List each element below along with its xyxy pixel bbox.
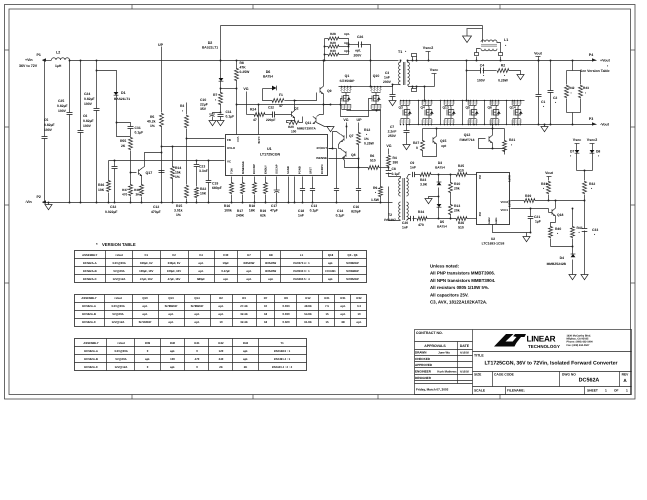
svg-text:opt.: opt. (355, 49, 361, 53)
svg-text:0.1µF: 0.1µF (135, 131, 144, 135)
svg-text:C20: C20 (402, 221, 408, 225)
wire top reset net (221, 25, 483, 27)
svg-text:R26: R26 (458, 221, 464, 225)
svg-text:CHECKED: CHECKED (415, 357, 431, 361)
wire reset to L1 (482, 26, 484, 29)
svg-text:R55: R55 (120, 139, 126, 143)
svg-text:10: 10 (264, 304, 268, 308)
svg-text:0.82µF: 0.82µF (83, 119, 94, 123)
svg-text:C12: C12 (153, 205, 159, 209)
svg-text:DC562A-A: DC562A-A (82, 304, 96, 308)
svg-text:MMBT2907A: MMBT2907A (297, 127, 316, 131)
svg-text:Q12: Q12 (464, 133, 471, 137)
svg-text:10K: 10K (98, 188, 105, 192)
svg-text:VG: VG (243, 87, 248, 91)
svg-text:240: 240 (219, 357, 224, 361)
svg-text:DC562A-C: DC562A-C (84, 365, 98, 369)
svg-text:SGND: SGND (287, 166, 290, 174)
svg-text:1%: 1% (364, 137, 369, 141)
wire R28 bus (325, 38, 329, 40)
svg-text:100: 100 (291, 130, 297, 134)
svg-text:DC562A-A: DC562A-A (83, 261, 97, 265)
svg-text:Si7892DP: Si7892DP (346, 261, 359, 265)
svg-text:R2: R2 (501, 64, 506, 68)
svg-text:R42: R42 (569, 86, 575, 90)
capacitor C17 47uF (276, 177, 278, 191)
svg-text:47µF, 16V: 47µF, 16V (140, 277, 153, 281)
svg-text:15k: 15k (175, 171, 181, 175)
svg-text:47µF, 16V: 47µF, 16V (168, 277, 181, 281)
svg-text:R41: R41 (577, 226, 583, 230)
svg-text:Q8: Q8 (351, 153, 356, 157)
svg-text:U2: U2 (491, 237, 495, 241)
svg-text:Q18: Q18 (557, 213, 564, 217)
wire diode join (577, 170, 593, 172)
svg-text:PA0373 4 : 1: PA0373 4 : 1 (293, 261, 310, 265)
svg-text:BAT54: BAT54 (437, 225, 447, 229)
resistor R24 47 (247, 114, 255, 116)
svg-text:Q6: Q6 (488, 106, 493, 110)
svg-text:C31: C31 (135, 126, 141, 130)
svg-text:Q1: Q1 (345, 74, 350, 78)
svg-text:DRAWN: DRAWN (415, 351, 427, 355)
svg-text:22µF: 22µF (200, 103, 208, 107)
diode D7 (575, 150, 580, 153)
svg-text:Q18: Q18 (328, 253, 334, 257)
svg-text:Fax: (408) 434-0507: Fax: (408) 434-0507 (567, 344, 591, 347)
svg-text:Q15: Q15 (440, 139, 447, 143)
svg-text:opt.: opt. (142, 304, 147, 308)
svg-text:1µH: 1µH (55, 64, 62, 68)
svg-text:C22: C22 (268, 106, 274, 110)
svg-text:R5: R5 (150, 115, 154, 119)
svg-text:PA0465 5 : 4: PA0465 5 : 4 (293, 277, 310, 281)
wire Q17 collector (142, 153, 162, 169)
svg-text:P3: P3 (589, 117, 593, 121)
svg-text:opt.: opt. (223, 277, 228, 281)
version table 1 (75, 251, 367, 283)
svg-text:LT1725CGN: LT1725CGN (260, 153, 281, 157)
svg-text:C23: C23 (199, 165, 205, 169)
svg-text:R21: R21 (324, 296, 330, 300)
svg-text:1%: 1% (176, 213, 181, 217)
svg-text:T1: T1 (280, 341, 284, 345)
svg-text:opt.: opt. (170, 365, 175, 369)
wire C26 drop to drains (370, 86, 372, 88)
svg-text:100V: 100V (58, 109, 67, 113)
svg-text:0: 0 (416, 146, 418, 150)
resistor R14 15k 1% (172, 147, 174, 167)
svg-text:Q10: Q10 (142, 296, 148, 300)
svg-text:L2: L2 (56, 51, 60, 55)
svg-text:2K: 2K (244, 365, 248, 369)
svg-text:100: 100 (170, 357, 175, 361)
svg-text:R23: R23 (420, 178, 426, 182)
svg-text:Vsec2: Vsec2 (587, 138, 597, 142)
transistor Q2 (291, 111, 293, 117)
svg-text:5V@20A: 5V@20A (115, 357, 126, 361)
svg-text:CONTRACT NO.: CONTRACT NO. (416, 331, 443, 335)
resistor R18 18K (254, 177, 256, 183)
svg-text:Si7892DP: Si7892DP (191, 304, 204, 308)
svg-text:VG: VG (386, 144, 391, 148)
resistor R37 470 (130, 173, 132, 185)
capacitor C24 0.82uF 100V (96, 61, 98, 109)
svg-text:opt.: opt. (142, 312, 147, 316)
svg-text:5V@20A: 5V@20A (112, 312, 123, 316)
svg-text:DC562A-B: DC562A-B (84, 357, 98, 361)
svg-text:opt.: opt. (170, 349, 175, 353)
svg-text:R4: R4 (393, 156, 397, 160)
svg-text:CAGE CODE: CAGE CODE (494, 373, 515, 377)
wire VCC pin riser (236, 105, 238, 135)
svg-text:C21: C21 (534, 215, 540, 219)
wire driver cluster (323, 94, 325, 115)
wire sec drain bus (401, 100, 525, 102)
svg-text:DATE: DATE (460, 344, 470, 348)
transistor Q8 (345, 151, 347, 157)
svg-text:1: 1 (626, 389, 628, 393)
svg-text:SFST: SFST (310, 167, 313, 174)
svg-text:All PNP transistors MMBT3906.: All PNP transistors MMBT3906. (430, 271, 495, 276)
svg-text:VCC2: VCC2 (500, 200, 508, 204)
svg-text:510: 510 (370, 159, 376, 163)
svg-text:Q5: Q5 (466, 106, 471, 110)
resistor R4 390 (387, 155, 391, 167)
svg-text:June Wu: June Wu (438, 351, 450, 355)
svg-text:ASSEMBLY: ASSEMBLY (83, 341, 98, 345)
svg-text:VCC: VCC (236, 137, 239, 143)
svg-text:UVLO: UVLO (227, 146, 236, 150)
svg-text:+Vout: +Vout (114, 296, 122, 300)
svg-text:LINEAR: LINEAR (527, 335, 556, 344)
svg-text:R21: R21 (509, 138, 515, 142)
wire GATE pin riser (258, 105, 260, 135)
svg-text:100V: 100V (477, 79, 486, 83)
svg-text:DESIGNER: DESIGNER (415, 376, 432, 380)
svg-text:Q3: Q3 (399, 106, 404, 110)
wire U2 gnd (493, 225, 531, 233)
svg-text:R15: R15 (176, 204, 182, 208)
svg-text:2K: 2K (219, 365, 223, 369)
svg-text:2.2nF: 2.2nF (388, 130, 397, 134)
svg-text:MINENAB: MINENAB (242, 161, 245, 174)
svg-text:D2: D2 (208, 41, 213, 45)
resistor R38 3K (141, 176, 143, 185)
svg-text:UP: UP (357, 118, 363, 122)
svg-text:D7: D7 (570, 150, 574, 154)
svg-text:510: 510 (458, 226, 464, 230)
svg-text:680µF: 680µF (197, 277, 205, 281)
svg-text:DC562A-A: DC562A-A (84, 349, 98, 353)
svg-text:Si7852DP: Si7852DP (346, 277, 359, 281)
svg-text:20k: 20k (454, 187, 460, 191)
svg-text:VERSION TABLE: VERSION TABLE (102, 242, 136, 247)
capacitor C31 0.1uF (117, 123, 131, 127)
inductor L2 1uH (52, 58, 70, 60)
svg-text:0.022µF: 0.022µF (105, 210, 117, 214)
node P1 +Vin input (43, 60, 52, 62)
svg-text:opt.: opt. (340, 304, 345, 308)
svg-text:0.82µF: 0.82µF (84, 97, 95, 101)
svg-text:R39: R39 (145, 341, 151, 345)
svg-text:0.030: 0.030 (283, 312, 290, 316)
svg-text:PA0297: PA0297 (384, 218, 396, 222)
svg-text:C2: C2 (553, 96, 557, 100)
svg-text:330µF, 6V: 330µF, 6V (168, 261, 181, 265)
resistor R32 (583, 181, 587, 194)
resistor R41 (572, 209, 574, 227)
svg-text:32.4K: 32.4K (240, 312, 247, 316)
svg-text:opt.: opt. (168, 312, 173, 316)
svg-text:C18: C18 (298, 209, 304, 213)
svg-text:Q10: Q10 (373, 74, 380, 78)
T1 secondary winding (408, 62, 410, 85)
svg-text:54.9K: 54.9K (304, 312, 311, 316)
wire gates (331, 104, 341, 106)
resistor R22 10K (195, 187, 199, 198)
svg-text:1nF: 1nF (402, 226, 408, 230)
svg-text:FCX491: FCX491 (325, 269, 336, 273)
node P3 -Vout (592, 122, 596, 126)
svg-text:C24: C24 (84, 92, 90, 96)
svg-text:3.3: 3.3 (357, 304, 361, 308)
ground T2 primary (389, 187, 401, 221)
svg-text:opt.: opt. (340, 312, 345, 316)
svg-text:opt.: opt. (344, 49, 350, 53)
svg-text:C16: C16 (353, 205, 359, 209)
capacitor C12 470uF (159, 171, 165, 173)
diode D5 BAT54 (438, 197, 440, 205)
svg-text:R43: R43 (583, 86, 589, 90)
svg-text:0.1µF: 0.1µF (310, 209, 319, 213)
svg-text:opt.: opt. (145, 357, 150, 361)
svg-text:R36: R36 (98, 183, 104, 187)
svg-text:C5: C5 (44, 118, 48, 122)
resistor R3 1% (185, 115, 189, 128)
svg-text:49.9K: 49.9K (304, 304, 311, 308)
svg-text:PA0533 3 : 1: PA0533 3 : 1 (293, 269, 310, 273)
svg-text:FILENAME:: FILENAME: (507, 389, 525, 393)
svg-text:2K: 2K (121, 144, 126, 148)
wire source bus (341, 104, 343, 109)
svg-text:Unless noted:: Unless noted: (430, 264, 460, 269)
svg-text:+Vout: +Vout (115, 253, 123, 257)
svg-text:C30: C30 (223, 253, 229, 257)
op-amp U2 LTC1693-1CS8 (477, 173, 510, 225)
wire gate drive (237, 89, 331, 105)
svg-text:APPROVED: APPROVED (415, 363, 433, 367)
svg-text:opt.: opt. (344, 32, 350, 36)
svg-text:3.3nF: 3.3nF (199, 169, 208, 173)
svg-text:OSCAP: OSCAP (276, 164, 279, 174)
svg-text:47: 47 (279, 104, 283, 108)
svg-text:510: 510 (458, 169, 464, 173)
op-amp U1 LT1725CGN (226, 135, 328, 176)
svg-text:DC562A-B: DC562A-B (83, 269, 97, 273)
svg-text:15: 15 (325, 320, 329, 324)
resistor R55 2K (117, 123, 131, 137)
svg-text:27.4K: 27.4K (240, 304, 247, 308)
svg-text:R7: R7 (213, 93, 217, 97)
Q18 (551, 209, 553, 215)
svg-text:470µF: 470µF (151, 210, 161, 214)
svg-text:Q17: Q17 (146, 171, 153, 175)
svg-text:47µF: 47µF (270, 209, 278, 213)
wire T2 sec bottom (407, 219, 411, 221)
svg-text:opt.: opt. (168, 320, 173, 324)
resistor R25 510 (456, 173, 467, 177)
svg-text:C25: C25 (58, 99, 64, 103)
svg-text:opt.: opt. (246, 269, 251, 273)
ground C21 (530, 232, 532, 234)
svg-text:1nF: 1nF (410, 166, 416, 170)
svg-text:T1: T1 (398, 50, 402, 54)
capacitor C19 680pF (208, 161, 210, 181)
svg-text:ROCMP: ROCMP (253, 164, 256, 174)
resistor R16 100k (231, 177, 233, 183)
svg-text:C11: C11 (226, 110, 232, 114)
svg-text:C14: C14 (337, 209, 343, 213)
svg-text:0.1µF: 0.1µF (336, 214, 345, 218)
svg-text:40.2k: 40.2k (147, 120, 156, 124)
wire SGND PGND (288, 177, 290, 203)
resistor R15 3.01k 1% (185, 185, 189, 198)
svg-text:C8: C8 (392, 167, 396, 171)
svg-text:+Vin: +Vin (25, 58, 33, 62)
svg-text:1%: 1% (150, 124, 155, 128)
svg-text:ASSEMBLY: ASSEMBLY (82, 253, 97, 257)
svg-text:Q9: Q9 (327, 89, 332, 93)
svg-text:BAS21LT1: BAS21LT1 (114, 97, 130, 101)
svg-text:0.020: 0.020 (283, 320, 290, 324)
wire driver bus (423, 128, 505, 130)
capacitor C32 0.022uF (114, 161, 116, 167)
svg-text:R3: R3 (180, 104, 184, 108)
resistor R30 opt (328, 53, 339, 56)
svg-text:GND2: GND2 (488, 217, 491, 224)
wire Q2 collector up (294, 101, 296, 111)
svg-text:F1: F1 (279, 93, 283, 97)
node P4 +Vout (592, 58, 596, 62)
svg-text:470: 470 (195, 357, 200, 361)
svg-text:opt: opt (441, 144, 447, 148)
transistor Q7 (343, 135, 345, 141)
svg-text:C7: C7 (390, 125, 394, 129)
svg-text:7.5: 7.5 (325, 304, 329, 308)
svg-text:-Vin: -Vin (25, 200, 32, 204)
svg-text:5V@20A: 5V@20A (113, 269, 124, 273)
svg-text:U1: U1 (267, 147, 272, 151)
node P2 -Vin rail (43, 202, 393, 204)
svg-text:35V: 35V (200, 107, 207, 111)
svg-text:R25: R25 (458, 164, 464, 168)
svg-text:1.5W: 1.5W (371, 198, 380, 202)
svg-text:opt.: opt. (218, 312, 223, 316)
wire R42 bracket (567, 70, 581, 72)
svg-text:62k: 62k (260, 214, 266, 218)
svg-text:C26: C26 (357, 35, 363, 39)
svg-text:R38: R38 (134, 188, 140, 192)
svg-text:0.25W: 0.25W (240, 70, 251, 74)
version table 2 (75, 295, 367, 327)
svg-text:R9: R9 (373, 186, 377, 190)
capacitor C1 (538, 61, 540, 95)
capacitor C23 3.3nF (196, 161, 198, 165)
svg-text:R31: R31 (340, 296, 346, 300)
svg-text:GATE: GATE (257, 137, 260, 144)
svg-text:opt.: opt. (194, 320, 199, 324)
svg-text:R3: R3 (242, 296, 246, 300)
capacitor C21 1uF (530, 209, 532, 217)
svg-text:250V: 250V (388, 134, 397, 138)
svg-text:PA0491 4 : 1: PA0491 4 : 1 (274, 357, 291, 361)
svg-text:C19: C19 (212, 182, 218, 186)
resistor R43 (580, 71, 582, 85)
arrow clamp (466, 29, 468, 36)
svg-text:IN1: IN1 (478, 175, 481, 180)
svg-text:C1: C1 (541, 100, 545, 104)
capacitor C5 0.82uF 100V (44, 61, 46, 137)
ground gate mid (429, 197, 439, 199)
svg-text:P4: P4 (589, 53, 593, 57)
svg-text:3V/OUT: 3V/OUT (316, 146, 327, 150)
wire UVLO feed (162, 146, 225, 148)
svg-text:C9: C9 (410, 161, 414, 165)
transistor Q15 opt (432, 137, 434, 143)
resistor F1 47 (263, 89, 273, 101)
L1 right snubber (497, 43, 501, 53)
svg-text:R18: R18 (249, 204, 255, 208)
svg-text:0.033: 0.033 (283, 304, 290, 308)
svg-text:200V: 200V (354, 54, 363, 58)
svg-text:20k: 20k (454, 209, 460, 213)
svg-text:opt.: opt. (356, 320, 361, 324)
svg-text:470: 470 (418, 223, 424, 227)
resistor R10 20k (450, 175, 452, 183)
svg-text:R12: R12 (364, 128, 370, 132)
svg-text:C2: C2 (172, 253, 176, 257)
svg-text:D8: D8 (596, 150, 600, 154)
resistor R9 1.5W (380, 111, 382, 187)
resistor R7 (220, 89, 222, 93)
svg-text:TITLE: TITLE (474, 354, 484, 358)
svg-text:47: 47 (253, 118, 257, 122)
svg-text:6/12/02: 6/12/02 (460, 371, 469, 374)
resistor R12 1% 0.25W (358, 131, 360, 133)
svg-text:+Vout: +Vout (117, 341, 125, 345)
wire +Vin rail (60, 60, 62, 62)
svg-text:C3: C3 (385, 71, 389, 75)
svg-text:0.82µF: 0.82µF (44, 123, 55, 127)
svg-text:47K: 47K (240, 66, 247, 70)
svg-text:Vsec: Vsec (573, 138, 581, 142)
svg-text:C3, AVX, 18122A102KAT2A.: C3, AVX, 18122A102KAT2A. (430, 300, 487, 305)
diode D4 MMBZ5242B (571, 254, 576, 257)
border frame (5, 5, 636, 400)
T1 core (403, 62, 405, 85)
svg-text:68: 68 (341, 320, 345, 324)
svg-text:See Version Table: See Version Table (580, 69, 610, 73)
svg-text:C33: C33 (592, 228, 598, 232)
svg-text:32.4K: 32.4K (240, 320, 247, 324)
svg-text:opt.: opt. (328, 261, 333, 265)
svg-text:C4: C4 (199, 253, 203, 257)
svg-text:R7: R7 (264, 296, 268, 300)
svg-text:R30: R30 (330, 49, 336, 53)
svg-text:All NPN transistors MMBT3904.: All NPN transistors MMBT3904. (430, 278, 495, 283)
capacitor C4 100V (467, 70, 481, 72)
